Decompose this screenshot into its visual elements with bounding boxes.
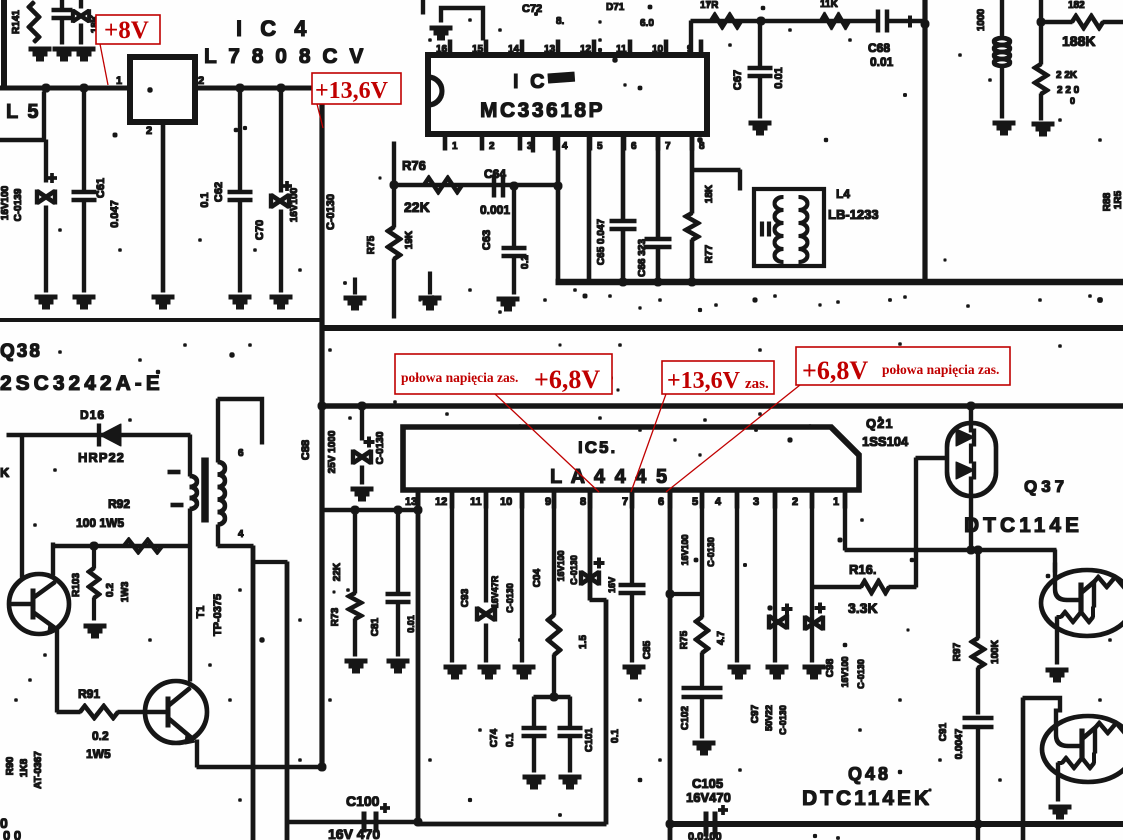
svg-text:10: 10 — [652, 44, 664, 55]
svg-text:1W3: 1W3 — [120, 581, 131, 602]
svg-text:C61: C61 — [95, 178, 107, 198]
svg-text:połowa napięcia zas.: połowa napięcia zas. — [401, 370, 518, 385]
svg-text:C-0130: C-0130 — [856, 659, 866, 689]
svg-text:4: 4 — [238, 529, 244, 540]
svg-text:IC5.: IC5. — [578, 438, 617, 457]
svg-text:R75: R75 — [679, 630, 690, 649]
svg-text:16V100: 16V100 — [0, 185, 11, 220]
svg-text:połowa napięcia zas.: połowa napięcia zas. — [882, 362, 999, 377]
svg-text:8: 8 — [580, 496, 586, 508]
svg-text:8.: 8. — [556, 16, 565, 27]
svg-text:2 2K: 2 2K — [1056, 70, 1078, 81]
svg-text:4: 4 — [562, 141, 568, 152]
svg-text:1K8: 1K8 — [19, 758, 30, 777]
svg-text:1: 1 — [452, 141, 458, 152]
svg-text:8: 8 — [699, 141, 705, 152]
svg-text:9: 9 — [545, 496, 551, 508]
svg-text:7: 7 — [622, 496, 628, 508]
svg-text:6: 6 — [238, 448, 244, 459]
svg-text:2: 2 — [489, 141, 495, 152]
svg-text:T1: T1 — [195, 606, 207, 619]
svg-text:C65 0.047: C65 0.047 — [596, 218, 607, 265]
svg-text:3: 3 — [753, 496, 759, 508]
svg-text:0.01: 0.01 — [773, 67, 785, 88]
svg-text:0.1: 0.1 — [610, 729, 621, 743]
svg-text:R88: R88 — [1102, 192, 1113, 211]
svg-text:R91: R91 — [78, 687, 100, 701]
svg-text:L4: L4 — [836, 187, 850, 201]
svg-text:DTC114EK: DTC114EK — [802, 787, 932, 810]
svg-text:C-0130: C-0130 — [505, 583, 515, 613]
svg-text:+13,6V: +13,6V — [667, 368, 741, 394]
svg-text:Q37: Q37 — [1024, 477, 1068, 496]
svg-text:4.7: 4.7 — [716, 631, 727, 645]
svg-text:7: 7 — [665, 141, 671, 152]
svg-text:0 0: 0 0 — [3, 828, 21, 840]
svg-text:0.0047: 0.0047 — [954, 728, 965, 759]
svg-text:D16: D16 — [80, 408, 105, 422]
svg-text:1R5: 1R5 — [1113, 190, 1123, 209]
svg-text:C-0130: C-0130 — [569, 555, 579, 585]
svg-text:1SS104: 1SS104 — [862, 434, 909, 449]
svg-text:+6,8V: +6,8V — [534, 365, 600, 394]
svg-text:14: 14 — [508, 44, 520, 55]
svg-text:L 7 8 0 8 C V: L 7 8 0 8 C V — [204, 45, 366, 68]
svg-text:R16.: R16. — [849, 562, 876, 577]
svg-text:2: 2 — [792, 496, 798, 508]
svg-text:C91: C91 — [938, 722, 949, 741]
svg-text:C97: C97 — [750, 704, 761, 723]
svg-text:+13,6V: +13,6V — [315, 78, 389, 104]
svg-text:C72: C72 — [522, 3, 542, 15]
svg-text:C63: C63 — [481, 230, 493, 250]
svg-text:0.01: 0.01 — [870, 55, 894, 69]
svg-text:L A 4 4 4 5: L A 4 4 4 5 — [550, 466, 669, 488]
svg-text:L 5: L 5 — [6, 101, 41, 123]
svg-text:1: 1 — [833, 496, 839, 508]
svg-text:12: 12 — [580, 44, 592, 55]
svg-text:13: 13 — [405, 496, 417, 508]
svg-text:0.2: 0.2 — [92, 729, 109, 743]
svg-text:18K: 18K — [704, 184, 715, 203]
svg-text:6: 6 — [658, 496, 664, 508]
svg-text:0.2: 0.2 — [520, 255, 531, 269]
svg-text:50V22: 50V22 — [764, 705, 774, 731]
svg-text:C62: C62 — [213, 182, 225, 202]
svg-text:HRP22: HRP22 — [78, 450, 125, 465]
svg-text:R97: R97 — [952, 642, 963, 661]
svg-text:C66 323: C66 323 — [637, 239, 648, 277]
svg-text:C-0130: C-0130 — [706, 537, 716, 567]
svg-text:11K: 11K — [820, 0, 839, 10]
svg-text:C98: C98 — [825, 658, 836, 677]
svg-text:R92: R92 — [108, 497, 130, 511]
svg-text:2: 2 — [146, 125, 152, 137]
svg-text:6.0: 6.0 — [640, 18, 654, 29]
svg-text:1000: 1000 — [976, 8, 987, 31]
svg-text:LB-1233: LB-1233 — [828, 207, 879, 222]
svg-text:3.3K: 3.3K — [848, 600, 878, 616]
svg-text:16V100: 16V100 — [840, 656, 850, 687]
svg-text:16V47R: 16V47R — [490, 575, 500, 608]
svg-text:10: 10 — [500, 496, 512, 508]
svg-text:R90: R90 — [5, 756, 16, 775]
svg-text:C68: C68 — [868, 41, 890, 55]
svg-text:2SC3242A-E: 2SC3242A-E — [0, 372, 164, 395]
svg-text:16V100: 16V100 — [680, 534, 690, 565]
svg-text:16: 16 — [436, 44, 448, 55]
svg-text:16V100: 16V100 — [289, 187, 300, 222]
svg-text:12: 12 — [435, 496, 447, 508]
svg-text:AT-0367: AT-0367 — [33, 751, 44, 789]
svg-text:19K: 19K — [404, 230, 415, 249]
svg-text:188K: 188K — [1062, 33, 1095, 49]
svg-text:0.001: 0.001 — [480, 203, 510, 217]
svg-text:0.0100: 0.0100 — [688, 831, 722, 840]
svg-text:C70: C70 — [254, 220, 266, 240]
svg-text:TP-0375: TP-0375 — [212, 594, 224, 636]
svg-text:R77: R77 — [704, 244, 715, 263]
svg-text:4: 4 — [715, 496, 722, 508]
svg-text:13: 13 — [544, 44, 556, 55]
svg-text:+6,8V: +6,8V — [802, 356, 868, 385]
svg-text:22K: 22K — [332, 562, 343, 581]
svg-text:16V 470: 16V 470 — [328, 826, 380, 840]
svg-text:D71: D71 — [606, 2, 625, 13]
svg-text:R75: R75 — [366, 235, 377, 254]
svg-text:16V470: 16V470 — [686, 790, 731, 805]
svg-text:C-0130: C-0130 — [325, 194, 337, 230]
svg-text:2 2 0: 2 2 0 — [1057, 85, 1080, 96]
svg-text:5: 5 — [692, 496, 698, 508]
svg-text:R76: R76 — [402, 158, 426, 173]
svg-text:11: 11 — [616, 44, 627, 55]
svg-text:C93: C93 — [460, 588, 471, 607]
svg-text:I C: I C — [513, 71, 548, 93]
svg-text:C105: C105 — [692, 776, 723, 791]
svg-text:I C 4: I C 4 — [236, 16, 312, 41]
svg-text:C-0130: C-0130 — [778, 705, 788, 735]
svg-text:R103: R103 — [71, 573, 82, 597]
svg-text:25V 1000: 25V 1000 — [327, 430, 338, 473]
svg-text:0.1: 0.1 — [199, 192, 211, 207]
svg-text:C85: C85 — [642, 640, 653, 659]
svg-text:R73: R73 — [330, 607, 341, 626]
svg-text:C04: C04 — [532, 568, 543, 587]
svg-text:C102: C102 — [680, 706, 691, 730]
svg-text:16V: 16V — [607, 577, 617, 593]
svg-text:C100: C100 — [346, 793, 380, 809]
svg-text:C88: C88 — [300, 440, 312, 460]
svg-text:0.1: 0.1 — [505, 733, 516, 747]
svg-text:Q38: Q38 — [0, 341, 42, 362]
svg-text:1W5: 1W5 — [86, 747, 111, 761]
svg-text:C67: C67 — [732, 70, 744, 90]
svg-text:16V100: 16V100 — [556, 550, 566, 581]
svg-text:2: 2 — [198, 75, 204, 87]
svg-text:C81: C81 — [370, 617, 381, 636]
svg-text:11: 11 — [470, 496, 482, 508]
svg-text:17R: 17R — [700, 0, 719, 11]
svg-text:6: 6 — [631, 141, 637, 152]
svg-text:R141: R141 — [11, 10, 22, 34]
svg-text:C74: C74 — [489, 728, 500, 747]
svg-text:1.5: 1.5 — [578, 635, 589, 649]
svg-text:0: 0 — [1070, 96, 1075, 106]
svg-text:5: 5 — [597, 141, 603, 152]
svg-text:15: 15 — [472, 44, 484, 55]
svg-text:1: 1 — [116, 75, 122, 87]
svg-text:DTC114E: DTC114E — [964, 514, 1083, 537]
svg-text:182: 182 — [1068, 0, 1085, 11]
svg-text:C-0130: C-0130 — [375, 431, 386, 464]
svg-text:Q48: Q48 — [848, 764, 891, 784]
svg-text:K: K — [0, 465, 10, 480]
svg-text:100 1W5: 100 1W5 — [76, 516, 124, 530]
svg-text:zas.: zas. — [745, 376, 769, 392]
svg-text:+8V: +8V — [104, 17, 149, 44]
svg-text:0.2: 0.2 — [105, 583, 116, 597]
svg-text:C-0139: C-0139 — [13, 188, 24, 221]
svg-text:0.01: 0.01 — [406, 615, 416, 633]
svg-text:100K: 100K — [990, 639, 1001, 664]
svg-text:MC33618P: MC33618P — [480, 99, 605, 122]
svg-text:C101: C101 — [584, 728, 595, 752]
svg-text:0.047: 0.047 — [109, 200, 121, 228]
svg-text:22K: 22K — [404, 199, 430, 215]
